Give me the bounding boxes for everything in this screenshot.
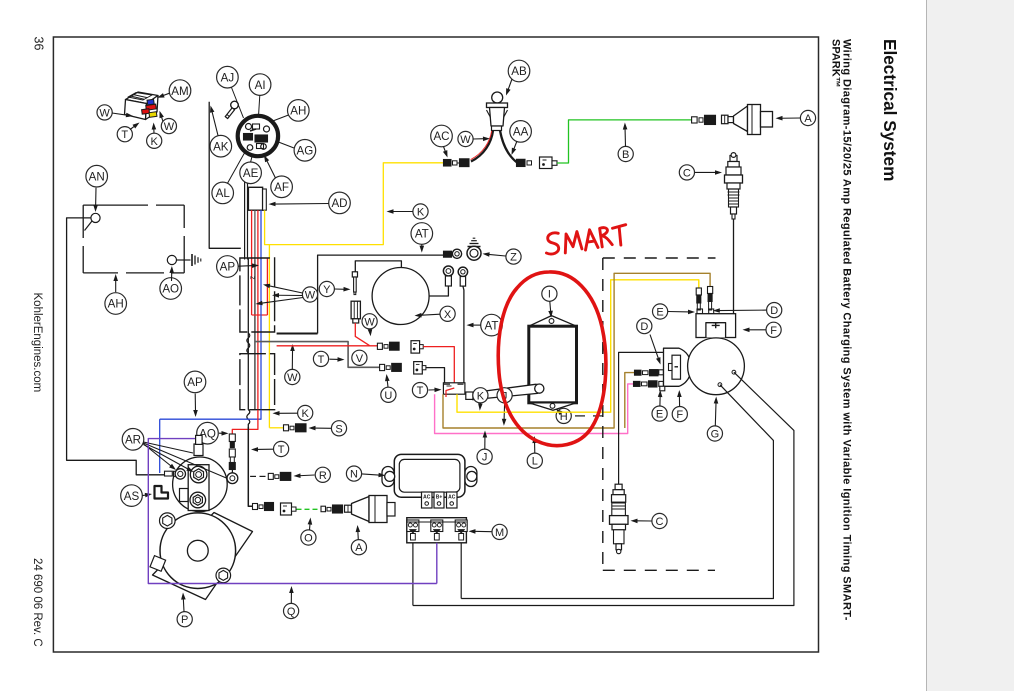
battery cable J (466, 392, 473, 399)
svg-text:AP: AP (220, 261, 236, 274)
red SMART ellipse (498, 272, 606, 446)
label AP top (217, 256, 239, 278)
svg-text:AI: AI (255, 79, 266, 92)
rectifier terminals AC B+ AC (422, 492, 433, 508)
connector AM yellow cell (149, 112, 157, 118)
harness loom sleeve upper (240, 258, 275, 332)
label C2 (652, 513, 667, 528)
fuel solenoid A lower (345, 505, 352, 512)
wire yellow S lead (269, 427, 283, 429)
svg-text:F: F (770, 325, 777, 337)
solenoid side rect (180, 489, 189, 502)
connector AM red cell upper (146, 104, 157, 110)
svg-text:Wiring Diagram-15/20/25 Amp Re: Wiring Diagram-15/20/25 Amp Regulated Ba… (841, 39, 853, 621)
spark plug C1 high tension wire (733, 219, 735, 314)
wire gray from fuse (254, 210, 256, 259)
loom red u-turn (252, 314, 268, 316)
solenoid Y (352, 272, 357, 277)
spade pair V (377, 343, 382, 349)
svg-text:L: L (532, 456, 538, 468)
purple terminal (196, 435, 203, 444)
wire tan branch to lower module (625, 373, 635, 428)
svg-text:W: W (287, 372, 298, 384)
plug T1 red (411, 341, 420, 353)
label AH (288, 100, 310, 122)
loom wire gray (254, 260, 256, 410)
stator right tap wire (429, 286, 448, 296)
label S (331, 421, 346, 436)
wire tan J run (443, 273, 710, 428)
svg-text:K: K (302, 408, 310, 420)
svg-text:E: E (656, 306, 663, 318)
wire yellow bullet connector upper module (696, 288, 701, 295)
label AK (210, 135, 232, 157)
label N (346, 466, 361, 481)
wire from key switch down left side (209, 102, 241, 249)
wire gray W to connector U (255, 342, 381, 368)
label AH module (105, 293, 127, 315)
svg-text:G: G (711, 428, 720, 440)
label I (542, 286, 557, 301)
svg-text:24 690 06 Rev. C: 24 690 06 Rev. C (31, 558, 43, 647)
starter tab (150, 556, 166, 572)
connector pair W/AC (444, 160, 452, 167)
label AL (212, 182, 234, 204)
connector on green wire (692, 117, 698, 123)
loom exit squiggle (247, 410, 250, 427)
loom wire red3 down (257, 258, 259, 410)
red jog under block (446, 388, 454, 397)
label D upper right (767, 303, 782, 318)
svg-text:Q: Q (287, 606, 296, 618)
svg-text:AC: AC (423, 495, 431, 501)
wire red from plug T1 (423, 347, 454, 383)
wire black main harness down (248, 427, 252, 506)
label L (527, 453, 542, 468)
svg-text:W: W (305, 289, 316, 301)
label V (352, 350, 367, 365)
wire tan bullet connector upper module (708, 287, 713, 294)
svg-text:KohlerEngines.com: KohlerEngines.com (31, 293, 43, 393)
starter solenoid body (173, 457, 228, 512)
svg-text:D: D (770, 305, 778, 317)
starter solenoid studs (190, 466, 207, 483)
label T arrow to V wire (313, 351, 328, 366)
starter bolt lower (216, 568, 231, 583)
spade pair U (380, 364, 385, 370)
svg-text:AM: AM (171, 85, 188, 98)
svg-text:AS: AS (124, 490, 140, 503)
svg-text:AD: AD (331, 197, 347, 210)
label AC (431, 125, 453, 147)
label AT top (411, 223, 433, 245)
label AQ (197, 422, 219, 444)
label AF (271, 176, 293, 198)
light lead right (500, 131, 517, 163)
label W near AC (458, 131, 473, 146)
svg-text:Y: Y (323, 284, 331, 296)
ring terminal AT lead (458, 267, 467, 276)
label AR (122, 429, 144, 451)
starter mounting plate (153, 513, 253, 600)
label AA (510, 121, 532, 143)
flywheel G (688, 338, 745, 395)
interlock module box AN (83, 204, 148, 206)
wire blue from fuse (260, 210, 262, 259)
label D lower (637, 319, 652, 334)
svg-text:z: z (249, 276, 256, 280)
ring terminal at AT wire (444, 251, 452, 257)
label C1 (679, 165, 694, 180)
wire red2 from fuse (257, 210, 259, 259)
connector AM blue cell (147, 99, 154, 105)
label W left of Y (302, 287, 317, 302)
label W under solenoid (362, 314, 377, 329)
connector AM body (126, 92, 159, 104)
svg-text:AR: AR (125, 433, 141, 446)
ground symbol above Z (468, 246, 481, 248)
label G (707, 426, 722, 441)
label T at block (412, 383, 427, 398)
svg-text:D: D (640, 321, 648, 333)
svg-text:AK: AK (213, 140, 229, 153)
label AO (160, 278, 182, 300)
connector pair AA (517, 159, 526, 166)
wire black from plug T2 (426, 368, 445, 383)
svg-text:AT: AT (415, 228, 429, 241)
svg-text:X: X (444, 309, 452, 321)
label K at loom bottom (298, 405, 313, 420)
stator X circle (372, 268, 429, 325)
svg-text:A: A (804, 113, 812, 125)
svg-text:AJ: AJ (221, 71, 235, 84)
svg-text:B: B (622, 149, 629, 161)
wire green B (557, 120, 692, 163)
wire yellow from fuse to AC connector (265, 163, 443, 245)
svg-text:W: W (364, 316, 375, 328)
ring nut on solenoid (174, 471, 180, 476)
label AI (249, 74, 271, 96)
label AE (240, 162, 262, 184)
light lead left with red trace (471, 131, 493, 162)
loom wire black (247, 258, 249, 410)
label B (618, 146, 633, 161)
red SMART handwriting (544, 223, 629, 256)
label T of AM (117, 127, 132, 142)
svg-text:O: O (304, 532, 313, 544)
label H (556, 408, 571, 423)
svg-text:SPARK™: SPARK™ (830, 39, 842, 88)
label P (177, 612, 192, 627)
plug AA (540, 157, 553, 169)
label W left of AM (97, 105, 112, 120)
wire red from fuse (251, 210, 253, 259)
label T harness (274, 441, 289, 456)
svg-text:T: T (278, 444, 285, 456)
label AB (508, 60, 530, 82)
svg-text:A: A (355, 542, 363, 554)
spade R with dashes (250, 475, 256, 477)
svg-text:AH: AH (108, 298, 124, 311)
svg-text:B+: B+ (436, 495, 443, 501)
wire green dashed O (297, 508, 322, 510)
loom gap squiggle (247, 333, 250, 353)
loom wire yellow S branch (268, 245, 270, 428)
label Q (284, 603, 299, 618)
dashed enclosure box (603, 257, 716, 259)
label E upper (653, 304, 668, 319)
svg-text:AE: AE (243, 167, 259, 180)
label AM (169, 80, 191, 102)
connector AM red cell lower (142, 109, 150, 115)
label E lower (652, 406, 667, 421)
spade S (284, 425, 289, 431)
label AJ (217, 66, 239, 88)
rectifier N body (382, 467, 394, 487)
svg-text:E: E (656, 409, 663, 421)
label U (381, 387, 396, 402)
loom wire red2 (266, 258, 268, 315)
svg-text:N: N (350, 469, 358, 481)
svg-text:C: C (683, 167, 691, 179)
loom wire blue (260, 258, 262, 410)
svg-text:AH: AH (290, 105, 306, 118)
junction block T (443, 383, 465, 394)
svg-text:AA: AA (513, 126, 529, 139)
ignition module F lower body (664, 348, 692, 386)
svg-text:AN: AN (89, 170, 105, 183)
svg-text:R: R (319, 470, 327, 482)
label AS (121, 485, 143, 507)
label A oil switch (800, 110, 815, 125)
stator top wire to Y solenoid (355, 261, 401, 272)
spade at harness end (253, 504, 258, 510)
harness loom sleeve lower (240, 354, 275, 410)
label K on cable (473, 388, 488, 403)
solenoid W (351, 301, 360, 319)
label W loom arrow (285, 369, 300, 384)
label M (492, 524, 507, 539)
spade O right (321, 506, 326, 512)
svg-text:AL: AL (216, 187, 231, 200)
svg-text:W: W (99, 107, 110, 119)
label O (301, 530, 316, 545)
label AG (294, 140, 316, 162)
label AP lower (184, 371, 206, 393)
wire AT vertical to junction block (463, 286, 464, 383)
pink bullet connector lower module (634, 381, 641, 386)
loom wire red (251, 258, 253, 315)
wire blue starter feed (160, 410, 261, 420)
svg-text:U: U (384, 390, 392, 402)
svg-text:J: J (482, 452, 488, 464)
svg-text:AP: AP (187, 376, 203, 389)
ring terminal stator (443, 266, 453, 276)
wire red from solenoid W (355, 323, 377, 346)
label W right of AM (161, 119, 176, 134)
svg-text:AC: AC (448, 495, 456, 501)
svg-text:T: T (318, 354, 325, 366)
wire AT ground lead (277, 333, 318, 335)
svg-text:F: F (676, 409, 683, 421)
svg-text:C: C (656, 516, 664, 528)
svg-text:AF: AF (274, 181, 289, 194)
upper module terminals (697, 309, 703, 314)
wire red AQ lead (232, 410, 258, 434)
bracket AS (155, 486, 169, 499)
svg-text:AG: AG (297, 144, 314, 157)
ignition module F upper body (696, 314, 736, 338)
plug O left (281, 503, 292, 515)
starter motor body (160, 513, 236, 589)
wire M left black (412, 543, 414, 606)
wire M purple (436, 543, 438, 584)
label F lower (672, 407, 687, 422)
svg-text:K: K (477, 390, 485, 402)
label R (315, 467, 330, 482)
label J lower (477, 449, 492, 464)
svg-text:W: W (164, 121, 175, 133)
fuse AD body (248, 187, 262, 210)
label AN (86, 165, 108, 187)
wires from key switch to loom (244, 168, 246, 260)
inline connector AQ chain (229, 434, 235, 442)
page right gray margin strip (927, 0, 1014, 691)
svg-text:AC: AC (433, 130, 449, 143)
wire red V lead (277, 345, 370, 347)
svg-text:W: W (460, 134, 471, 146)
wire spark lower lead (619, 352, 664, 484)
svg-text:S: S (335, 423, 342, 435)
label K of AM (147, 133, 162, 148)
svg-text:K: K (151, 136, 159, 148)
label Z (506, 249, 521, 264)
svg-text:K: K (417, 206, 425, 218)
wire purple main (148, 439, 437, 584)
spark plug C1 (730, 156, 737, 162)
oil pressure switch A (722, 115, 729, 124)
svg-text:P: P (181, 614, 188, 626)
connector M (407, 518, 467, 543)
svg-text:Z: Z (510, 252, 517, 264)
plug T2 black (414, 362, 423, 374)
label W three-arrow loom (268, 286, 303, 293)
svg-text:T: T (121, 129, 128, 141)
key switch terminals (246, 124, 252, 130)
battery I body (529, 316, 577, 327)
key switch U1 body (238, 116, 278, 156)
label Y (319, 281, 334, 296)
diagram border frame (53, 37, 818, 652)
svg-text:I: I (548, 289, 551, 301)
svg-text:AB: AB (511, 65, 527, 78)
svg-text:36: 36 (32, 37, 46, 51)
flywheel kill wires (413, 372, 794, 605)
label J on cable (497, 388, 512, 403)
label AD (329, 192, 351, 214)
tan bullet connector lower module (635, 370, 642, 375)
svg-text:T: T (417, 385, 424, 397)
key AJ (231, 101, 239, 109)
inline link on AN wire (165, 471, 173, 476)
svg-text:M: M (495, 527, 504, 539)
svg-text:AT: AT (485, 319, 499, 332)
spark plug C2 (615, 484, 622, 490)
svg-text:AO: AO (162, 283, 179, 296)
label A lower (351, 540, 366, 555)
indicator light AB (492, 92, 503, 103)
wire M right black (460, 543, 462, 599)
label F upper (766, 322, 781, 337)
svg-text:Electrical System: Electrical System (880, 39, 900, 181)
wire from AN terminal to starter area (67, 218, 164, 475)
label AT right (481, 314, 503, 336)
interlock terminal AN (91, 213, 100, 222)
wire pink L run (435, 384, 634, 434)
wire yellow K run (457, 280, 699, 412)
label X (440, 306, 455, 321)
starter bolt upper (160, 513, 176, 529)
interlock terminal AO (167, 255, 176, 264)
label K yellow wire top (413, 204, 428, 219)
svg-text:V: V (356, 353, 364, 365)
ground comb at AO (191, 254, 193, 266)
ground stud Z (467, 246, 481, 260)
